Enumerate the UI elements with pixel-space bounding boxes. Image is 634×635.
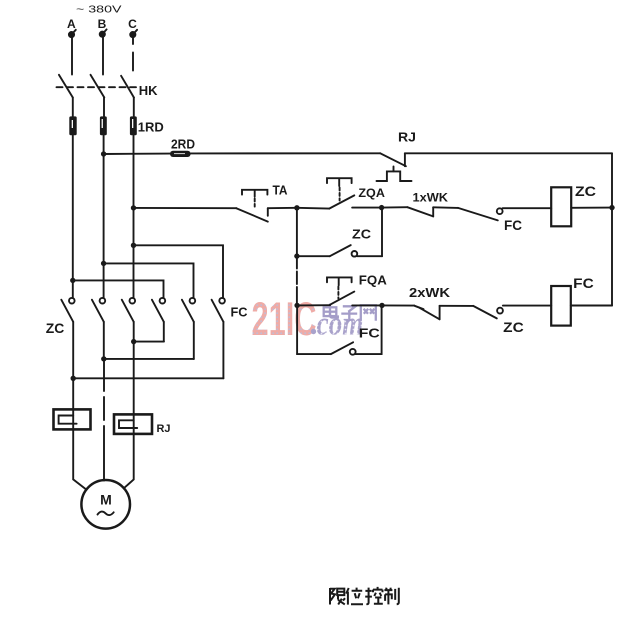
caption zhi bbox=[384, 588, 398, 605]
wire through heater right bbox=[133, 414, 135, 434]
node bottom C bbox=[131, 339, 136, 344]
wire phase C main bbox=[133, 135, 135, 298]
node bottom B bbox=[101, 356, 106, 361]
caption wei bbox=[346, 588, 363, 605]
heater RJ left hook bbox=[59, 416, 77, 424]
svg-text:ZC: ZC bbox=[46, 321, 65, 336]
wire B to fuse bbox=[103, 98, 105, 118]
wire crossover C bbox=[134, 245, 224, 298]
watermark char dian bbox=[324, 304, 338, 318]
svg-text:~ 380V: ~ 380V bbox=[76, 4, 122, 15]
fuse 2RD bbox=[170, 151, 191, 157]
wire motor feed B bbox=[103, 359, 105, 481]
contact FC NC blade bbox=[458, 208, 498, 221]
contact main 6 circle bbox=[219, 298, 225, 304]
button ZQA blade bbox=[329, 195, 354, 208]
node row1 right bbox=[379, 205, 384, 210]
button FQA blade bbox=[330, 292, 354, 305]
wire right bus bbox=[611, 153, 613, 305]
wire ZQA to node bbox=[352, 207, 381, 209]
button TA terminal bbox=[267, 208, 269, 216]
contact main 4 circle bbox=[160, 298, 166, 304]
wire ZC hold right bbox=[357, 255, 382, 257]
wire below contact 5 bbox=[193, 322, 195, 359]
wire row1 left bbox=[134, 207, 237, 209]
contact main 1 blade bbox=[61, 300, 73, 322]
switch HK pole B bbox=[91, 75, 105, 98]
wire control top right bbox=[405, 152, 612, 154]
limit switch 2xWK notch bbox=[414, 306, 423, 310]
svg-text:B: B bbox=[98, 17, 107, 31]
wire phase B top bbox=[102, 37, 104, 75]
button FQA actuator dash bbox=[337, 287, 339, 299]
wire below contact 4 bbox=[163, 322, 165, 342]
contact main 4 blade bbox=[152, 300, 164, 322]
coil FC bbox=[551, 286, 571, 326]
wire to ZC hold bbox=[297, 255, 330, 257]
switch HK pole C bbox=[121, 76, 134, 98]
svg-text:1xWK: 1xWK bbox=[413, 191, 449, 205]
fuse 1RD pole B bbox=[100, 116, 107, 135]
relay contact RJ blade bbox=[380, 153, 406, 166]
button TA blade bbox=[236, 208, 267, 221]
wire bottom row B bbox=[104, 358, 194, 360]
button ZQA actuator bbox=[327, 178, 352, 186]
wire to FQA bbox=[297, 304, 330, 306]
contact FC holding blade bbox=[331, 342, 353, 354]
node crossover A bbox=[70, 278, 75, 283]
wire FC coil to bus bbox=[571, 305, 612, 307]
caption xian bbox=[330, 588, 345, 605]
limit switch 1xWK terminal bbox=[432, 207, 434, 216]
wire below contact 6 bbox=[222, 322, 224, 379]
svg-text:ZC: ZC bbox=[575, 184, 596, 199]
contact ZC holding circle bbox=[352, 251, 358, 257]
wire FQA to node bbox=[352, 304, 382, 306]
wire through heater left bbox=[72, 409, 74, 429]
wire C to fuse bbox=[133, 98, 135, 118]
wire FC hold up bbox=[381, 306, 383, 355]
svg-text:FC: FC bbox=[504, 218, 522, 233]
contact main 1 circle bbox=[69, 298, 75, 304]
svg-text:1RD: 1RD bbox=[138, 119, 164, 134]
wire ZC hold up bbox=[381, 208, 383, 257]
wire A to fuse bbox=[72, 98, 74, 118]
contact main 6 blade bbox=[212, 300, 224, 322]
wire node down to ZC hold bbox=[296, 208, 298, 256]
watermark char zi bbox=[341, 306, 357, 321]
svg-text:ZC: ZC bbox=[503, 320, 524, 335]
svg-text:A: A bbox=[67, 17, 76, 31]
svg-text:ZQA: ZQA bbox=[358, 186, 385, 200]
contact FC holding circle bbox=[350, 349, 356, 355]
fuse 1RD pole A bbox=[69, 116, 76, 135]
wire crossover A bbox=[73, 280, 164, 298]
svg-text:FC: FC bbox=[573, 276, 594, 291]
wire TA to node bbox=[268, 207, 297, 209]
contact main 3 circle bbox=[130, 298, 136, 304]
wire to 1xWK bbox=[382, 206, 408, 208]
relay contact RJ terminal bbox=[404, 153, 406, 166]
heater RJ right hook bbox=[119, 420, 137, 428]
node bottom A bbox=[71, 376, 76, 381]
wire down to FC hold bbox=[296, 305, 298, 354]
contact main 5 blade bbox=[182, 300, 194, 322]
switch HK pole A bbox=[59, 75, 73, 98]
wire 1xWK to FC bbox=[433, 206, 458, 209]
wire phase C top bbox=[132, 37, 134, 71]
wire phase A top bbox=[71, 37, 73, 75]
wire bottom row C bbox=[134, 341, 164, 343]
fuse 1RD pole C bbox=[130, 116, 137, 135]
coil ZC bbox=[551, 187, 571, 226]
svg-text:2RD: 2RD bbox=[171, 136, 195, 151]
node FQA row left bbox=[294, 303, 299, 308]
node ZC hold left bbox=[294, 253, 299, 258]
svg-text:21IC: 21IC bbox=[252, 292, 317, 345]
svg-text:C: C bbox=[128, 17, 137, 31]
node bus row1 bbox=[609, 205, 614, 210]
limit switch 2xWK blade bbox=[420, 308, 440, 319]
terminal B bbox=[100, 32, 105, 37]
wire phase A main bbox=[72, 135, 74, 298]
wire to 2xWK bbox=[382, 304, 414, 306]
watermark char wang bbox=[361, 305, 376, 320]
wire motor feed A bbox=[73, 429, 86, 489]
wire control top left bbox=[104, 153, 170, 155]
node FQA row right bbox=[379, 303, 384, 308]
relay RJ heater bump bbox=[377, 171, 412, 181]
node crossover C bbox=[131, 243, 136, 248]
wire to FC hold bbox=[297, 353, 331, 355]
button FQA actuator bbox=[327, 277, 352, 285]
limit switch 2xWK terminal bbox=[439, 306, 441, 320]
wire broken down segment bbox=[296, 256, 298, 305]
wire to ZQA bbox=[297, 207, 329, 210]
motor tilde bbox=[98, 512, 114, 516]
svg-text:FC: FC bbox=[359, 327, 380, 341]
wire below contact 1 bbox=[72, 322, 74, 410]
contact ZC NC blade bbox=[473, 306, 497, 319]
motor M bbox=[81, 480, 130, 529]
contact main 3 blade bbox=[122, 300, 134, 322]
heater RJ left box bbox=[54, 409, 91, 429]
switch HK linkage bbox=[57, 86, 140, 88]
node row1 left bbox=[294, 205, 299, 210]
button TA actuator dash bbox=[254, 199, 256, 207]
wire below contact 2 bbox=[103, 322, 105, 359]
contact main 5 circle bbox=[190, 298, 196, 304]
contact main 2 circle bbox=[100, 298, 106, 304]
svg-text:2xWK: 2xWK bbox=[409, 285, 451, 300]
svg-text:ZC: ZC bbox=[352, 228, 371, 242]
svg-text:FC: FC bbox=[231, 305, 248, 319]
wire 2xWK to ZC bbox=[440, 305, 474, 307]
wire phase B main bbox=[103, 135, 105, 298]
node B-2RD bbox=[101, 151, 106, 156]
limit switch 1xWK blade bbox=[407, 207, 433, 216]
wire below contact 3 bbox=[133, 322, 135, 415]
wire control top mid bbox=[191, 152, 381, 154]
wire FC to coil bbox=[503, 207, 552, 209]
svg-text:FQA: FQA bbox=[359, 272, 388, 287]
terminal A bbox=[69, 32, 74, 37]
button TA actuator bbox=[242, 190, 267, 197]
svg-text:M: M bbox=[100, 492, 112, 508]
wire ZC to FC coil bbox=[503, 305, 551, 307]
svg-text:RJ: RJ bbox=[398, 130, 416, 145]
contact ZC holding blade bbox=[330, 245, 351, 256]
svg-text:HK: HK bbox=[139, 83, 158, 98]
contact FC NC circle bbox=[497, 208, 503, 214]
wire motor feed C bbox=[124, 434, 134, 488]
terminal C bbox=[130, 32, 135, 37]
wire crossover B bbox=[104, 263, 194, 298]
watermark dot bbox=[311, 329, 316, 334]
caption kong bbox=[365, 587, 383, 604]
relay RJ link dash bbox=[393, 167, 395, 172]
heater RJ right box bbox=[114, 414, 152, 434]
wire coil to bus bbox=[571, 207, 612, 209]
node crossover B bbox=[101, 261, 106, 266]
contact main 2 blade bbox=[92, 300, 104, 322]
wire FC hold right bbox=[356, 353, 382, 355]
contact ZC NC circle bbox=[497, 308, 503, 314]
wire bottom row A bbox=[73, 377, 223, 379]
button ZQA actuator dash bbox=[339, 188, 341, 201]
node C-control bbox=[131, 205, 136, 210]
svg-text:TA: TA bbox=[273, 182, 289, 197]
svg-text:RJ: RJ bbox=[157, 423, 171, 435]
